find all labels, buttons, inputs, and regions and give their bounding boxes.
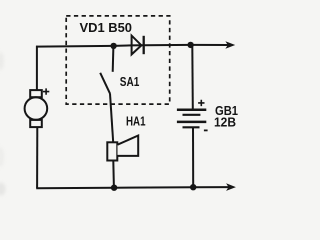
node junction dot bottom battery <box>190 184 196 190</box>
svg-text:HA1: HA1 <box>126 113 146 128</box>
diode VD1 cathode bar <box>143 36 145 54</box>
battery GB1 long plate 1 <box>177 109 206 112</box>
node junction dot battery tap <box>187 42 193 48</box>
switch SA1 blade <box>100 73 110 94</box>
motor M1 top brush terminal <box>30 90 42 97</box>
battery polarity plus sign <box>198 100 204 106</box>
battery GB1 bottom lead <box>192 127 194 187</box>
scan smudge bottom left corner <box>0 183 6 196</box>
motor polarity plus sign <box>43 88 49 94</box>
switch SA1 top lead <box>112 46 115 72</box>
battery GB1 short plate 1 <box>183 114 201 116</box>
svg-text:VD1 B50: VD1 B50 <box>80 20 133 35</box>
arrow top right <box>225 41 235 49</box>
diode VD1 triangle <box>132 36 142 55</box>
dashed enclosure box <box>66 16 170 104</box>
wire speaker bottom lead <box>112 161 115 188</box>
speaker HA1 horn <box>118 136 139 156</box>
battery GB1 top lead <box>191 45 194 109</box>
arrow bottom right <box>226 183 236 191</box>
battery polarity minus sign <box>204 129 208 131</box>
node junction dot bottom speaker <box>111 185 117 191</box>
svg-text:SA1: SA1 <box>120 74 140 89</box>
scan smudge left upper <box>0 52 4 70</box>
switch SA1 lower lead down to speaker <box>110 93 113 142</box>
motor M1 body circle <box>25 97 48 120</box>
svg-text:12B: 12B <box>214 114 236 129</box>
wire top horizontal <box>36 45 228 47</box>
battery GB1 short plate 2 <box>183 126 200 128</box>
scan smudge left lower <box>0 147 4 167</box>
node junction dot switch tap <box>110 43 116 49</box>
wire left vertical upper segment <box>36 46 38 91</box>
wire bottom horizontal <box>36 187 228 188</box>
wire left vertical lower segment <box>36 127 38 188</box>
speaker HA1 driver rectangle <box>107 142 117 160</box>
motor M1 bottom brush terminal <box>30 120 42 127</box>
battery GB1 long plate 2 <box>177 121 206 124</box>
